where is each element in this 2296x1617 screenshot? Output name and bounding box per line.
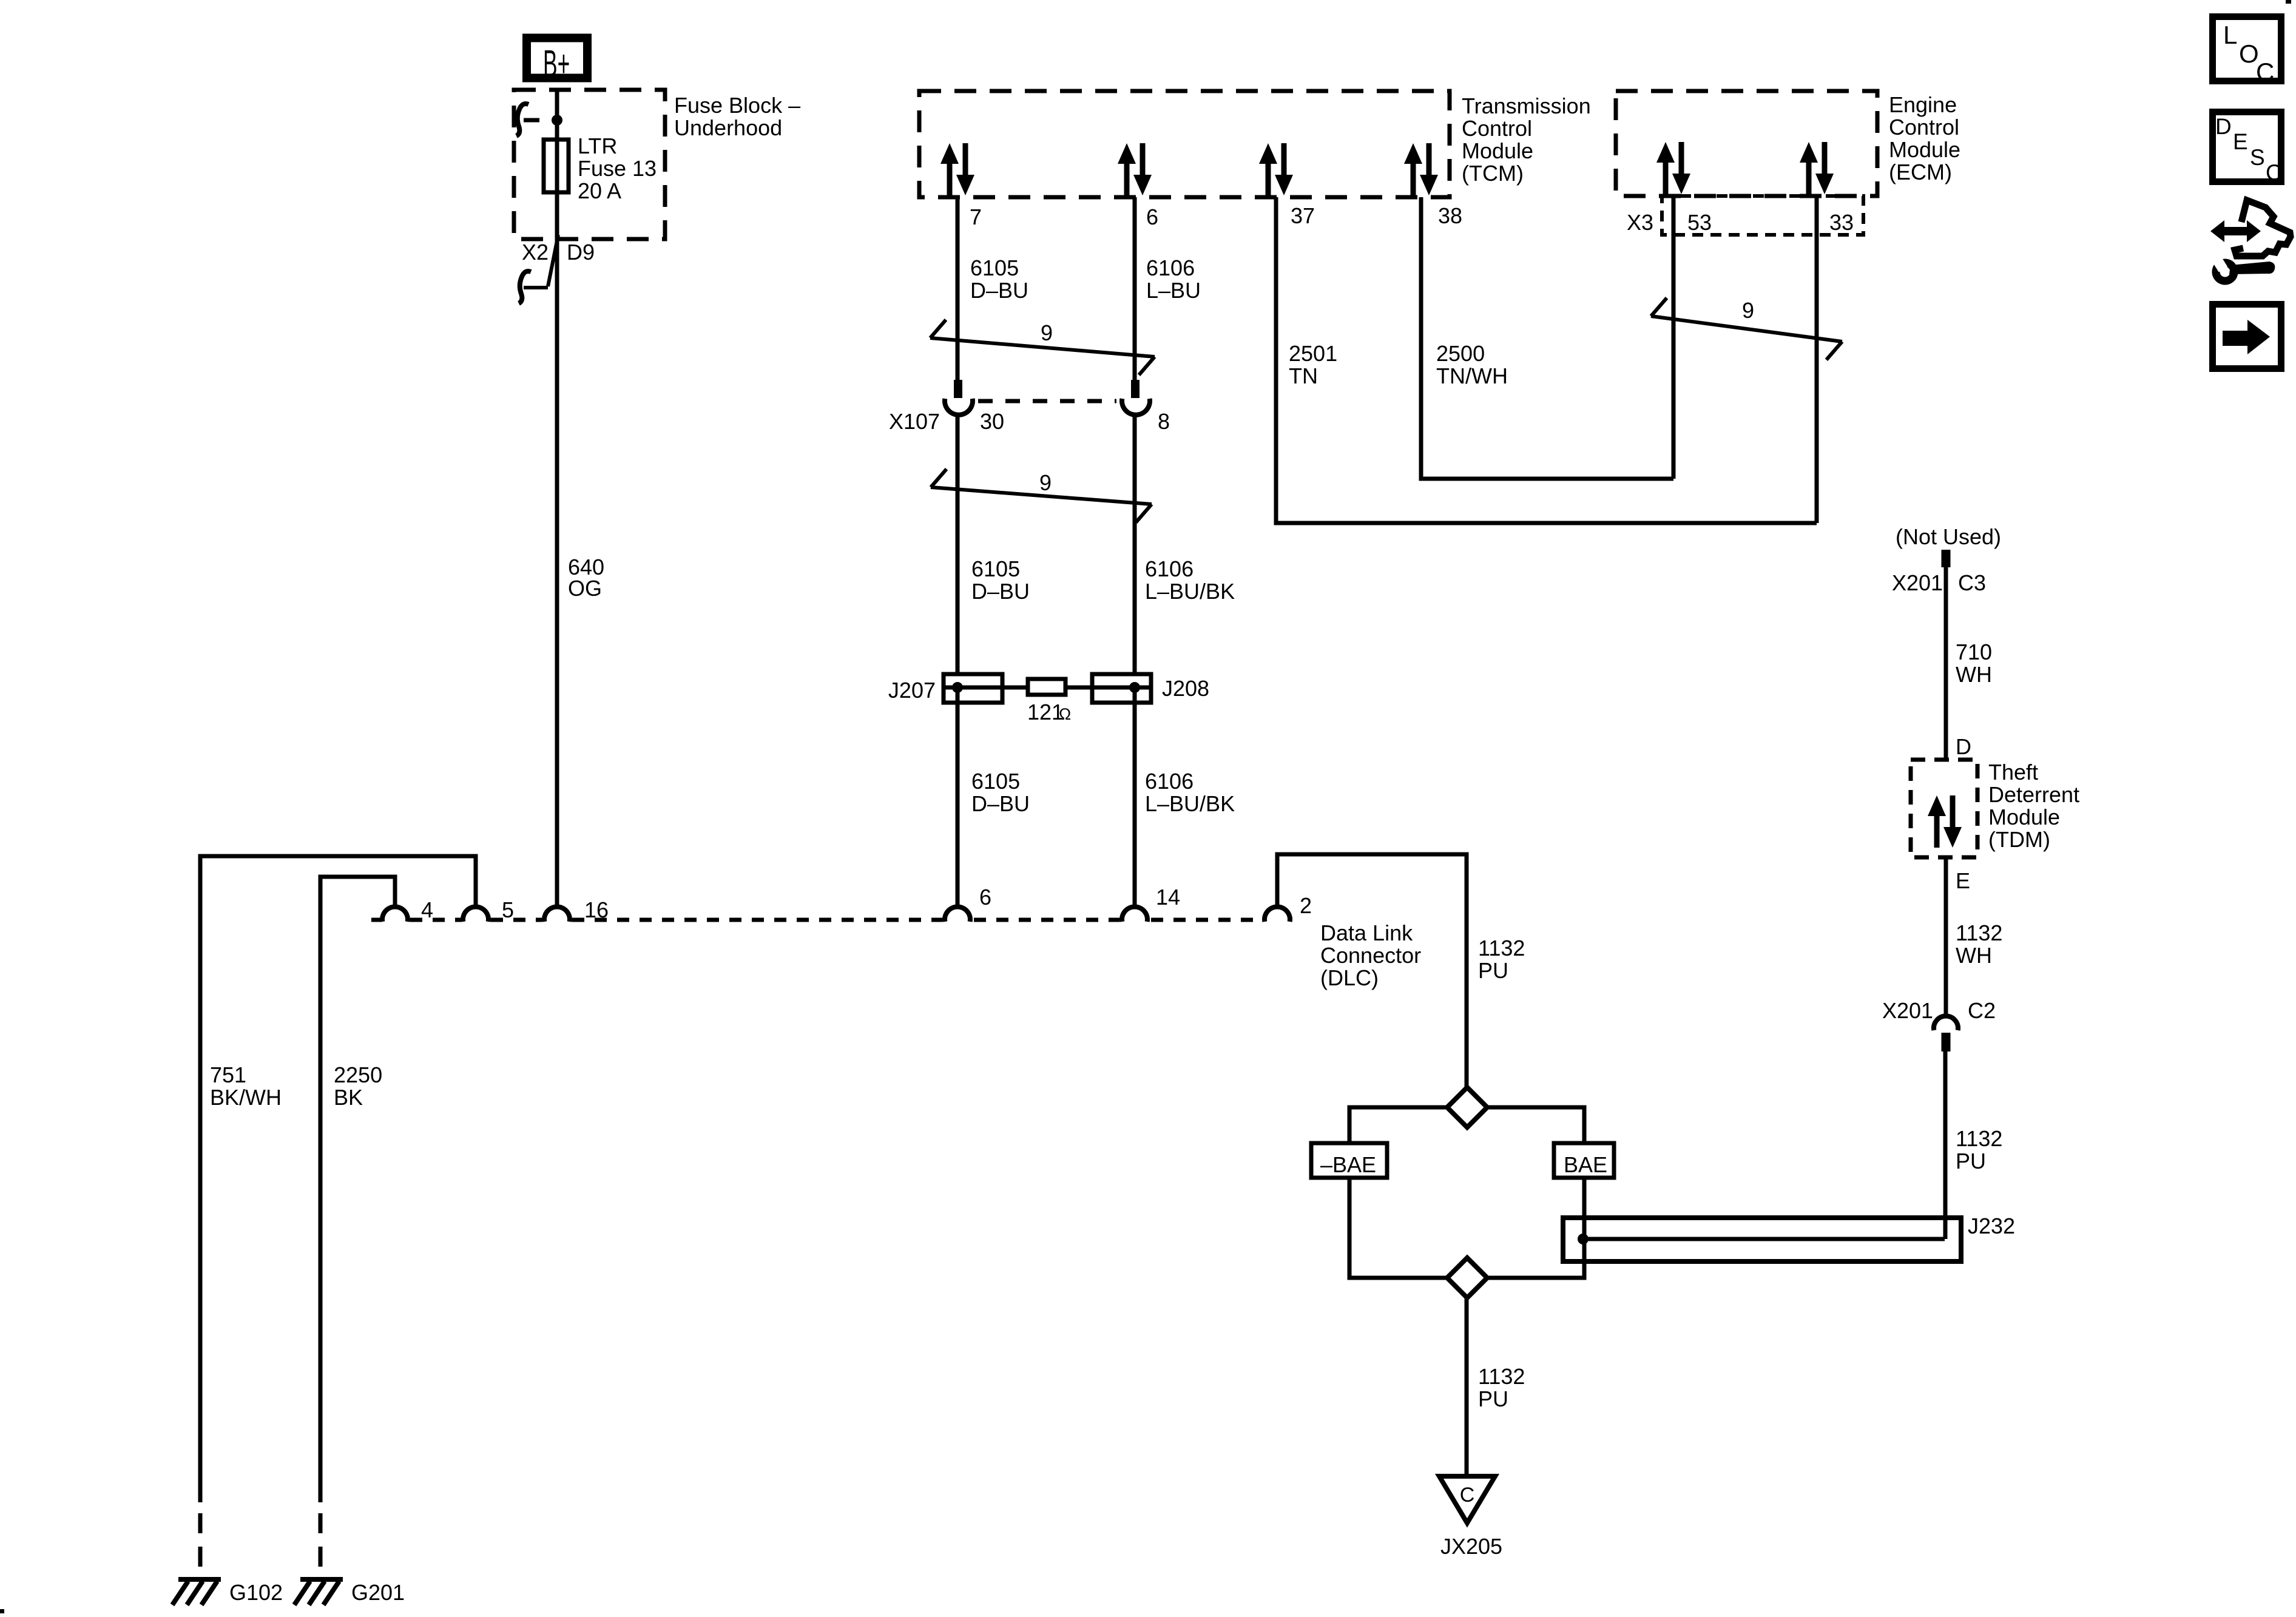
svg-text:E: E [1956, 868, 1970, 893]
svg-text:1132: 1132 [1956, 1126, 2002, 1151]
svg-text:(TDM): (TDM) [1988, 827, 2050, 852]
svg-text:X201: X201 [1892, 570, 1943, 595]
splice diamond lower [1447, 1258, 1487, 1298]
svg-text:D–BU: D–BU [971, 579, 1030, 604]
splice pack J208 [1092, 674, 1151, 703]
svg-text:Theft: Theft [1988, 760, 2038, 785]
svg-text:BAE: BAE [1564, 1152, 1607, 1177]
svg-text:751: 751 [210, 1062, 246, 1087]
DLC female pin14 [1122, 906, 1147, 922]
junction J207 [952, 682, 963, 693]
svg-text:L: L [2223, 21, 2237, 49]
off-page triangle C [1439, 1476, 1495, 1523]
wire J207 to resistor [944, 686, 1028, 690]
svg-text:D–BU: D–BU [970, 278, 1028, 303]
connector X2 pin D9 pass-through [548, 235, 558, 286]
splice pack J207 [944, 674, 1002, 703]
connector X107 male terminal pin30 [954, 380, 962, 398]
svg-text:J208: J208 [1162, 676, 1209, 701]
svg-text:2501: 2501 [1289, 341, 1337, 366]
svg-text:JX205: JX205 [1440, 1534, 1502, 1559]
twisted pair symbol 9 lower [931, 487, 1152, 504]
svg-text:6106: 6106 [1145, 769, 1194, 794]
wire 6105 D-BU TCM pin7 to X107 [956, 197, 960, 381]
icon forward arrow box [2213, 305, 2281, 369]
wire 1132 WH TDM pin E to X201-C2 [1944, 857, 1948, 1015]
svg-text:X3: X3 [1627, 210, 1653, 235]
svg-text:Module: Module [1889, 137, 1960, 162]
twisted pair symbol 9 upper [930, 338, 1155, 357]
TCM dashed enclosure [919, 91, 1450, 197]
svg-text:LTR: LTR [578, 133, 617, 158]
svg-text:C3: C3 [1958, 570, 1986, 595]
wire 2250 BK DLC pin4 to G201 [320, 877, 395, 1502]
svg-text:6105: 6105 [970, 255, 1019, 280]
svg-text:9: 9 [1041, 320, 1053, 345]
ground G201 [300, 1577, 343, 1582]
ECM dashed enclosure [1616, 91, 1877, 196]
svg-text:OG: OG [568, 576, 602, 601]
svg-text:2500: 2500 [1436, 341, 1485, 366]
svg-text:6106: 6106 [1145, 556, 1194, 581]
wire 751 BK/WH dashed tail [198, 1513, 203, 1578]
connector X107 female pin30 [945, 399, 973, 415]
TCM bidirectional arrows pin 38 [1404, 143, 1422, 195]
svg-text:1132: 1132 [1956, 920, 2002, 945]
svg-text:33: 33 [1829, 210, 1854, 235]
node -BAE [1311, 1143, 1387, 1178]
svg-text:Data Link: Data Link [1320, 920, 1413, 945]
icon LOC box [2213, 17, 2281, 81]
wire 2250 BK dashed tail [319, 1513, 323, 1578]
svg-text:Deterrent: Deterrent [1988, 782, 2079, 807]
ECM bidirectional arrows pin 53 [1656, 142, 1675, 194]
junction in fuse block [552, 115, 562, 126]
svg-text:Ω: Ω [1059, 705, 1071, 723]
svg-text:1132: 1132 [1478, 1364, 1525, 1389]
svg-text:C: C [2256, 58, 2274, 86]
ECM connector X3 dashed body [1662, 196, 1863, 235]
svg-text:TN/WH: TN/WH [1436, 363, 1508, 388]
connector X107 dashed body [978, 399, 1116, 403]
svg-text:PU: PU [1478, 1386, 1508, 1411]
svg-text:L–BU: L–BU [1146, 278, 1201, 303]
wire 2500 TN/WH TCM pin38 to ECM pin53 [1421, 197, 1673, 479]
svg-text:D: D [2215, 114, 2232, 139]
wire ring left lower [1349, 1178, 1449, 1278]
svg-text:J207: J207 [888, 678, 936, 703]
svg-text:(ECM): (ECM) [1889, 160, 1952, 184]
svg-text:6105: 6105 [971, 556, 1020, 581]
TDM bidirectional arrows [1928, 795, 1946, 848]
svg-text:–BAE: –BAE [1320, 1152, 1376, 1177]
svg-text:4: 4 [421, 897, 433, 922]
twisted pair symbol 9 right [1651, 316, 1842, 342]
svg-text:Module: Module [1462, 138, 1533, 163]
svg-text:L–BU/BK: L–BU/BK [1145, 579, 1235, 604]
wire resistor to J208 [1065, 686, 1151, 690]
svg-text:(TCM): (TCM) [1462, 161, 1524, 186]
svg-text:7: 7 [970, 204, 982, 229]
wire 6105 D-BU J207 to DLC pin6 [956, 687, 960, 907]
wire 1132 PU splice to JX205 [1465, 1298, 1469, 1476]
svg-text:X201: X201 [1882, 998, 1933, 1023]
terminal X201 C3 male [1942, 550, 1951, 567]
wire ECM pin33 down [1815, 196, 1819, 523]
svg-text:D9: D9 [567, 240, 595, 265]
svg-text:14: 14 [1156, 885, 1180, 910]
svg-text:2: 2 [1300, 893, 1312, 918]
resistor 121 ohm [1028, 679, 1065, 695]
svg-text:J232: J232 [1968, 1214, 2015, 1238]
svg-text:BK: BK [334, 1085, 363, 1110]
svg-text:G102: G102 [229, 1580, 283, 1605]
wire 6106 L-BU TCM pin6 to X107 [1133, 197, 1137, 381]
svg-text:9: 9 [1742, 298, 1754, 323]
wire 640 OG from B+ to DLC pin 16 [555, 91, 559, 907]
DLC dashed body [371, 918, 382, 922]
svg-text:WH: WH [1956, 943, 1992, 968]
svg-text:Engine: Engine [1889, 92, 1957, 117]
DLC female pin2 [1264, 906, 1290, 922]
wire ring right upper [1485, 1107, 1584, 1143]
fuse LTR Fuse 13 20A [544, 140, 569, 192]
wire ECM pin53 down [1672, 196, 1676, 479]
svg-text:Control: Control [1462, 116, 1532, 141]
page mark bottom left [0, 1609, 4, 1613]
DLC female pin5 [463, 906, 488, 922]
svg-text:TN: TN [1289, 363, 1318, 388]
ECM bidirectional arrows pin 33 [1800, 142, 1818, 194]
wire inside J232 [1583, 1237, 1945, 1241]
svg-text:53: 53 [1687, 210, 1712, 235]
svg-text:5: 5 [502, 897, 514, 922]
svg-text:Underhood: Underhood [674, 115, 782, 140]
svg-text:710: 710 [1956, 640, 1992, 664]
svg-text:Module: Module [1988, 805, 2060, 829]
icon DESC box [2213, 112, 2281, 182]
svg-text:20 A: 20 A [578, 178, 621, 203]
wire 751 BK/WH DLC pin5 to G102 [200, 856, 476, 1502]
wire 1132 PU DLC pin2 to splice [1277, 854, 1467, 1088]
svg-text:C: C [1460, 1484, 1475, 1507]
svg-text:D–BU: D–BU [971, 791, 1030, 816]
svg-text:PU: PU [1956, 1149, 1986, 1173]
svg-text:C2: C2 [1968, 998, 1996, 1023]
junction J208 [1129, 682, 1140, 693]
svg-text:WH: WH [1956, 662, 1992, 687]
TDM dashed enclosure [1911, 760, 1977, 857]
splice diamond upper [1447, 1087, 1487, 1127]
junction inside J232 [1578, 1234, 1589, 1244]
svg-text:38: 38 [1438, 203, 1462, 228]
node BAE [1554, 1143, 1614, 1178]
svg-text:6: 6 [979, 885, 991, 910]
svg-text:G201: G201 [351, 1580, 405, 1605]
svg-text:S: S [2250, 145, 2265, 170]
svg-text:(DLC): (DLC) [1320, 965, 1379, 990]
svg-text:8: 8 [1158, 409, 1170, 434]
svg-text:X107: X107 [889, 409, 940, 434]
svg-text:6105: 6105 [971, 769, 1020, 794]
fuse block clip [524, 118, 539, 123]
TCM bidirectional arrows pin 37 [1259, 143, 1277, 195]
wire 6106 L-BU/BK J208 to DLC pin14 [1133, 687, 1137, 907]
wire ring right lower [1485, 1178, 1584, 1278]
wire 2501 TN TCM pin37 to ECM pin33 [1276, 197, 1817, 523]
wire 6106 L-BU/BK X107 to J208 [1133, 413, 1137, 674]
node B+ battery feed [527, 38, 587, 78]
svg-text:Fuse Block –: Fuse Block – [674, 93, 800, 118]
svg-text:E: E [2233, 129, 2248, 154]
svg-text:37: 37 [1291, 203, 1315, 228]
svg-text:L–BU/BK: L–BU/BK [1145, 791, 1235, 816]
wire 1132 PU X201-C2 to J232 [1943, 1052, 1948, 1239]
svg-text:(Not Used): (Not Used) [1896, 524, 2001, 549]
svg-text:Transmission: Transmission [1462, 93, 1591, 118]
svg-text:2250: 2250 [334, 1062, 382, 1087]
wire ring left upper [1349, 1107, 1449, 1143]
terminal X201 C2 male [1942, 1033, 1951, 1052]
wire 6105 D-BU X107 to J207 [956, 413, 960, 674]
ground G102 [178, 1577, 221, 1582]
svg-text:Control: Control [1889, 115, 1959, 140]
svg-text:Connector: Connector [1320, 943, 1421, 968]
page mark top right [2286, 0, 2291, 4]
svg-text:D: D [1956, 734, 1971, 759]
wire 710 WH X201-C3 to TDM pin D [1944, 567, 1948, 760]
connector X201 C2 female [1934, 1016, 1958, 1030]
svg-text:6106: 6106 [1146, 255, 1195, 280]
svg-text:6: 6 [1146, 204, 1158, 229]
DLC female pin4 [382, 906, 408, 922]
connector X107 male terminal pin8 [1131, 380, 1140, 398]
svg-text:C: C [2266, 160, 2282, 185]
svg-text:Fuse 13: Fuse 13 [578, 156, 657, 181]
TCM bidirectional arrows pin 7 [940, 143, 959, 195]
icon adjust hand with wrench [2210, 220, 2261, 242]
fuse block - underhood dashed enclosure [514, 90, 665, 239]
svg-text:BK/WH: BK/WH [210, 1085, 282, 1110]
svg-text:X2: X2 [522, 240, 549, 265]
svg-text:16: 16 [584, 897, 609, 922]
svg-text:1132: 1132 [1478, 936, 1525, 960]
splice pack J232 body [1563, 1218, 1961, 1261]
DLC female pin16 [544, 906, 570, 922]
DLC female pin6 [945, 906, 970, 922]
svg-text:9: 9 [1039, 470, 1052, 495]
connector X107 female pin8 [1122, 399, 1150, 415]
svg-text:PU: PU [1478, 958, 1508, 983]
svg-text:B+: B+ [543, 42, 570, 84]
TCM bidirectional arrows pin 6 [1118, 143, 1136, 195]
svg-text:30: 30 [980, 409, 1004, 434]
